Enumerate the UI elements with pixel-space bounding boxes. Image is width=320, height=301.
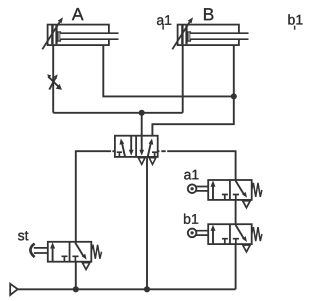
svg-text:a1: a1 — [156, 12, 172, 28]
svg-text:st: st — [18, 227, 29, 243]
svg-text:a1: a1 — [184, 166, 200, 182]
svg-text:b1: b1 — [183, 211, 199, 227]
svg-text:A: A — [72, 4, 84, 24]
svg-text:b1: b1 — [288, 12, 304, 28]
svg-text:B: B — [203, 4, 215, 24]
